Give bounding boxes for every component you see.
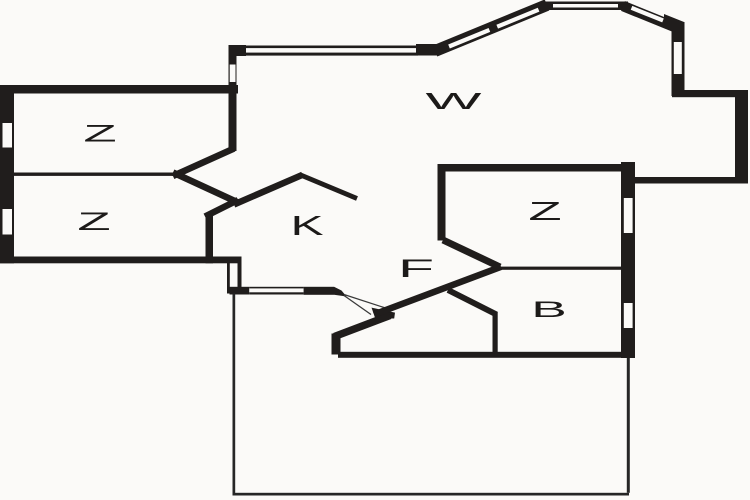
wall: Z3 west wall	[438, 164, 446, 241]
wall: band from right wall to outer right	[634, 177, 748, 184]
window band north: top strip	[246, 46, 418, 49]
wall: top band to outer right	[672, 90, 748, 97]
window slit 2 in NW diagonal	[497, 10, 538, 27]
wall: top band of bay	[542, 2, 628, 11]
window bay right	[674, 42, 682, 74]
wall: vertical wall west of W room	[229, 45, 237, 151]
svg-text:F: F	[398, 255, 434, 283]
window strips K south	[249, 287, 303, 289]
wall: Z3 corner diagonal	[443, 240, 500, 267]
wall: bottom wall of left block	[0, 257, 242, 264]
window right wall lower	[624, 303, 633, 328]
wall: diagonal P1 to P2	[173, 173, 238, 203]
wall: left exterior wall of Z rooms	[0, 85, 14, 263]
wall: jamb vertical thick	[238, 262, 242, 293]
wall: bottom room west vertical	[332, 334, 341, 355]
wall: top wall of left block	[0, 85, 238, 94]
wall: bay right vertical	[672, 22, 685, 96]
svg-text:Z: Z	[83, 120, 116, 147]
wall: corner block NW of window band	[229, 45, 247, 56]
window right wall upper	[624, 198, 633, 233]
window slit in NE diagonal	[632, 8, 664, 21]
wall: K south wall left part	[230, 287, 250, 295]
wall: diagonal P2 to P3	[205, 200, 238, 217]
wall: bottom wall of building	[338, 352, 635, 358]
wall: K roof right diagonal	[300, 175, 358, 199]
wall: NW bay diagonal band	[435, 5, 547, 51]
svg-text:B: B	[531, 297, 567, 322]
wall: B west vertical	[493, 312, 498, 353]
door leaf	[372, 308, 396, 319]
wall: bottom room west diagonal	[335, 316, 391, 337]
wall: chunk at east end of window band	[416, 44, 440, 56]
window slit 1 in NW diagonal	[449, 30, 489, 47]
wall: K roof left diagonal	[234, 175, 303, 205]
wall: outer right wall	[735, 90, 748, 184]
terrace right edge	[627, 358, 630, 493]
wall: thin divider between Z1 and Z2	[14, 173, 176, 176]
window in left wall lower	[3, 209, 13, 235]
svg-text:Z: Z	[528, 197, 561, 226]
window in left wall upper	[3, 123, 13, 148]
wall: door hinge tip	[334, 287, 347, 297]
svg-text:W: W	[426, 88, 483, 114]
wall: D diagonal to B room	[448, 290, 497, 315]
wall: diagonal P1 to vertical wall	[173, 149, 234, 177]
wall: corner block NE	[664, 14, 684, 34]
wall: Z3 top wall	[438, 164, 622, 172]
terrace left edge	[233, 294, 236, 496]
wall: vertical wall P3 down to bottom	[206, 214, 214, 263]
svg-text:K: K	[290, 210, 323, 241]
door swing line 1	[344, 295, 387, 309]
svg-text:Z: Z	[77, 208, 110, 235]
wall: thin divider Z3/B	[496, 267, 622, 270]
door swing line 2	[344, 296, 371, 315]
wall: NE bay diagonal band	[623, 6, 676, 28]
wall: main F diagonal	[374, 267, 501, 315]
line: thin jamb line	[227, 262, 230, 294]
window in that wall	[230, 65, 236, 83]
window band north: bottom strip	[246, 53, 418, 56]
terrace bottom edge	[233, 493, 630, 496]
window slit in top band	[553, 4, 618, 8]
wall: right exterior wall of Z3/B	[621, 162, 635, 358]
wall: K south wall right part	[304, 287, 334, 295]
